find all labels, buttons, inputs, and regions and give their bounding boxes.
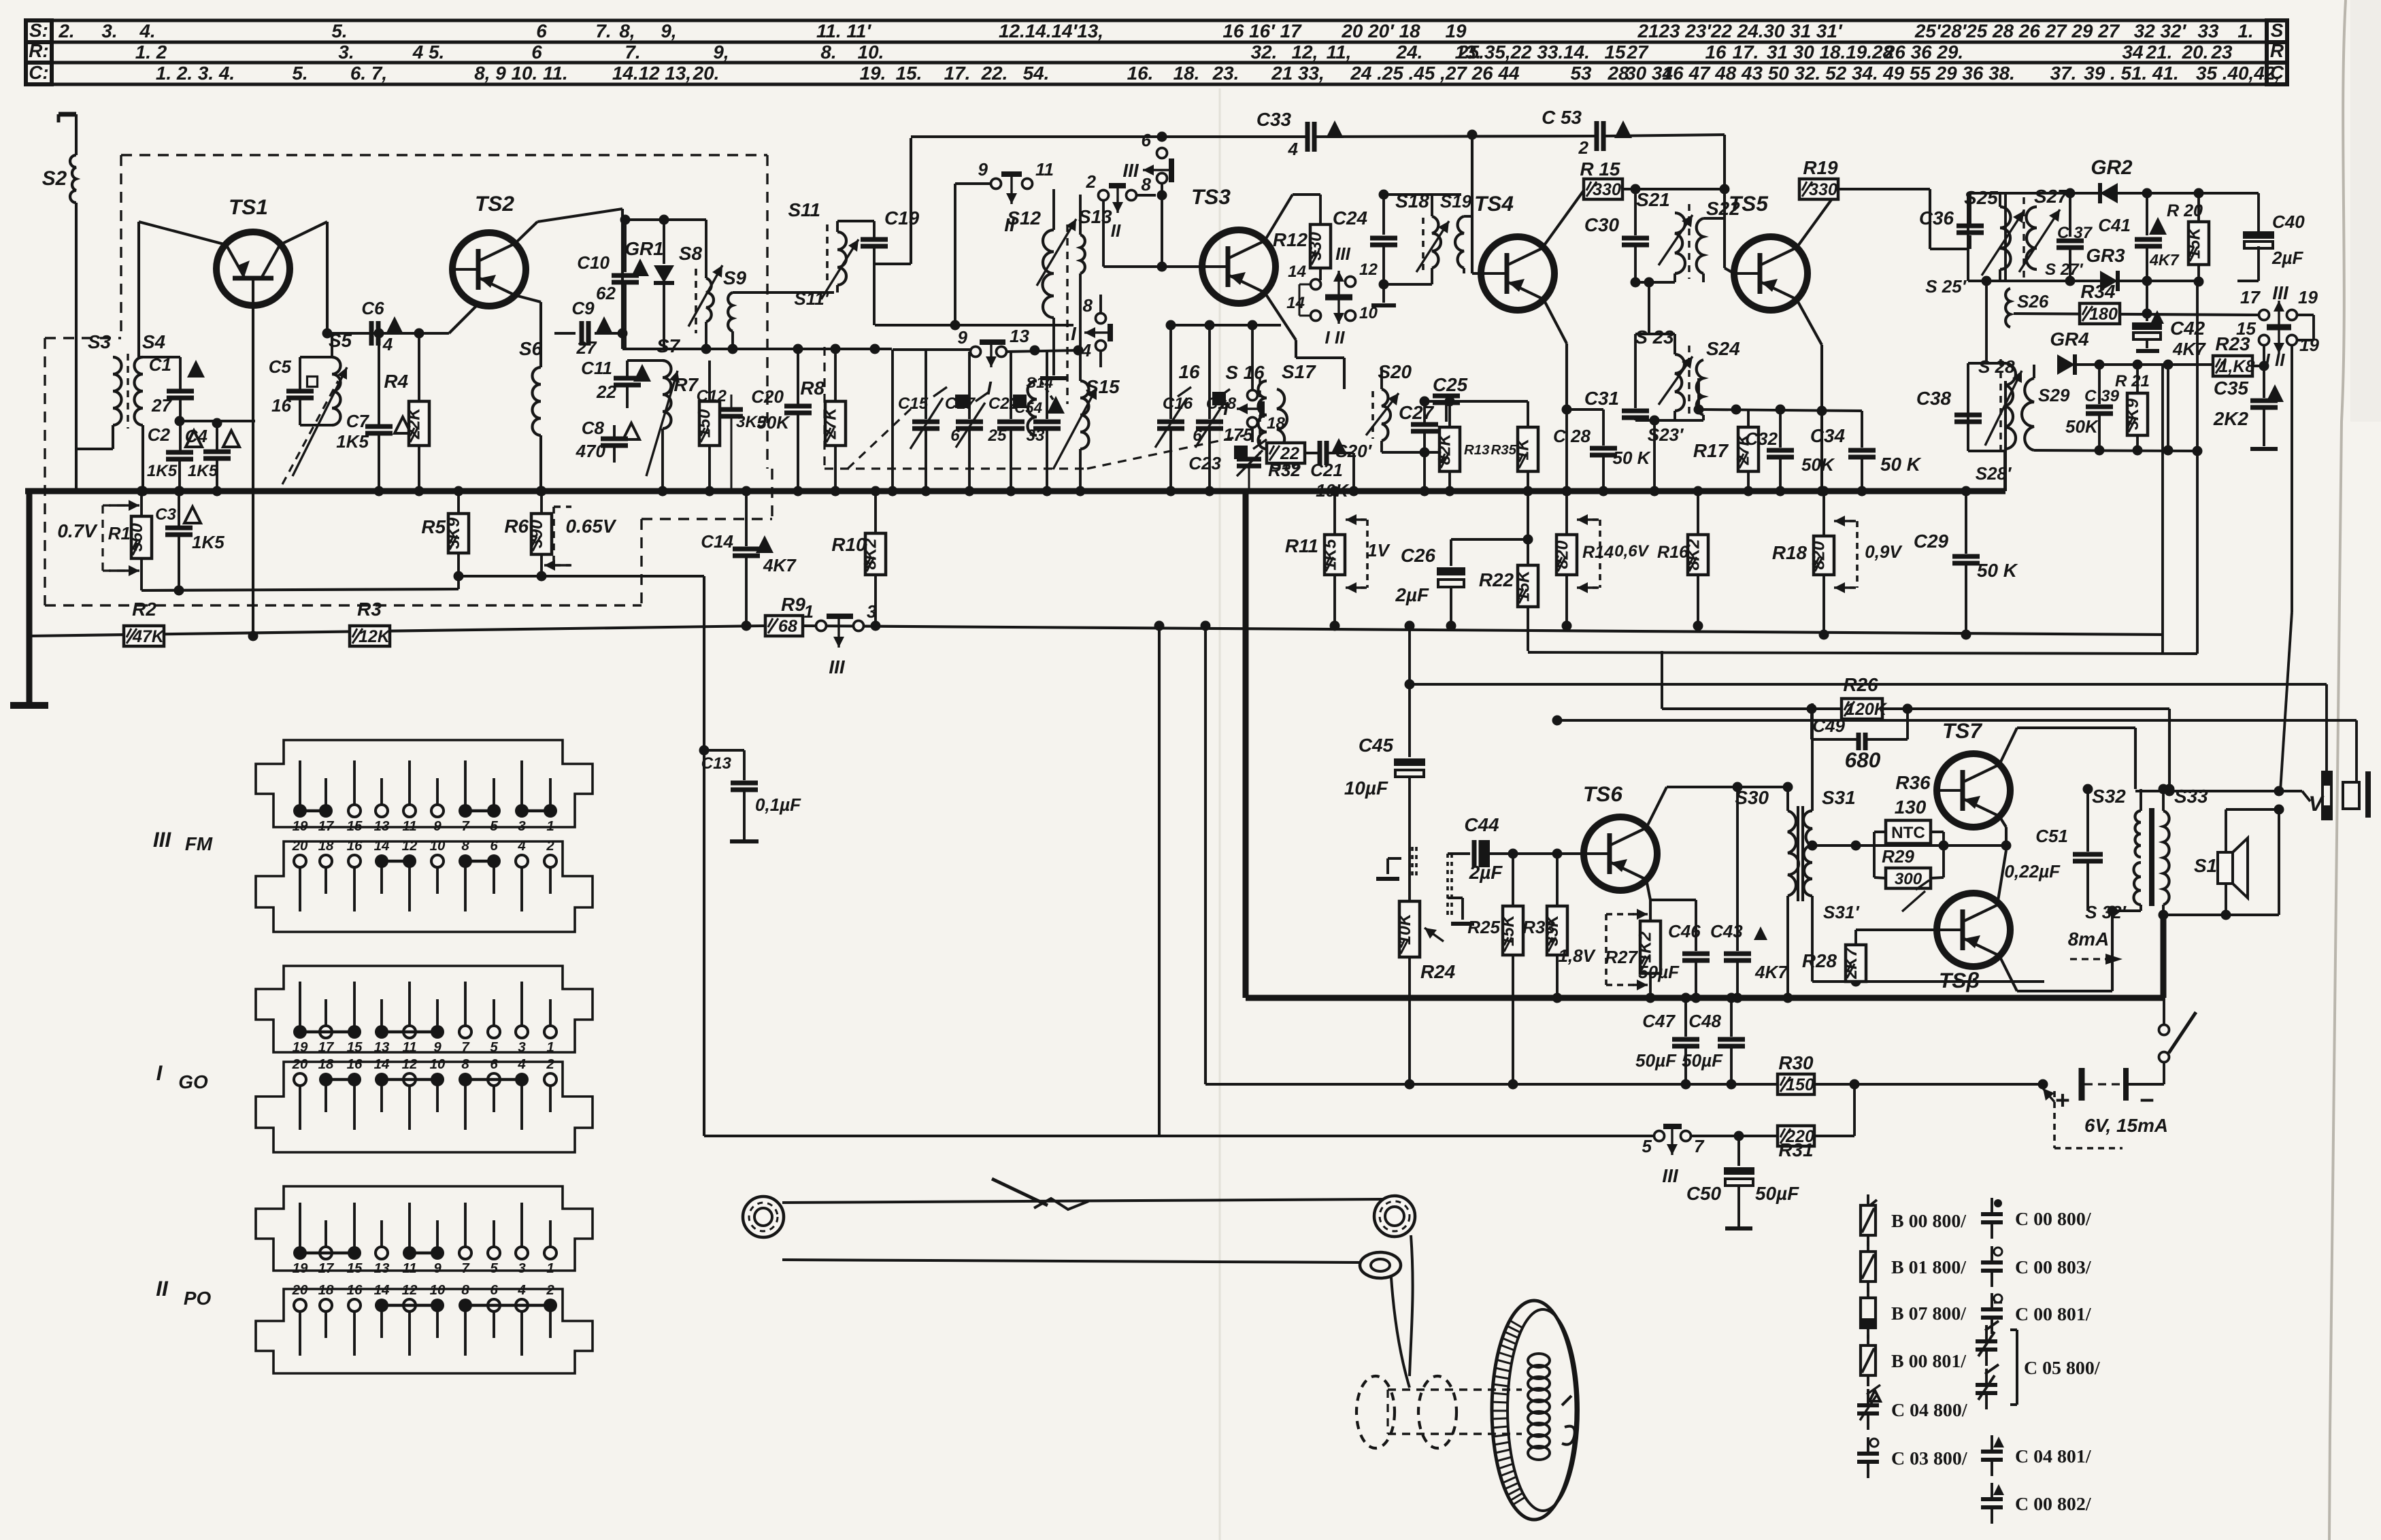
- resistor R18: [1772, 486, 1834, 640]
- svg-text:S 23: S 23: [1635, 327, 1674, 348]
- svg-text:S32: S32: [2092, 786, 2126, 807]
- svg-text:C 00 802/: C 00 802/: [2015, 1494, 2092, 1515]
- svg-text:S29: S29: [2038, 385, 2070, 405]
- capacitor C42: [2132, 310, 2206, 359]
- switch contact 6-8 III vert: [1122, 130, 1171, 272]
- pot wiper dashes: [1376, 847, 1474, 924]
- capacitor C4: [185, 423, 239, 497]
- svg-text:50µF: 50µF: [1755, 1183, 1799, 1204]
- svg-text:4 5.: 4 5.: [412, 41, 445, 63]
- legend B 00 800: [1861, 1194, 1967, 1246]
- svg-text:S 25′: S 25′: [1925, 276, 1967, 297]
- svg-text:C29: C29: [1914, 531, 1949, 552]
- svg-text:4K7: 4K7: [2149, 251, 2180, 269]
- svg-text:C 28: C 28: [1553, 426, 1591, 446]
- capacitor C21: [1305, 438, 1359, 501]
- svg-text:S21: S21: [1636, 189, 1670, 210]
- svg-text:50µF: 50µF: [1682, 1050, 1723, 1071]
- capacitor C50: [1686, 1136, 1799, 1228]
- diode GR1: [625, 220, 674, 349]
- svg-text:18: 18: [318, 1282, 334, 1298]
- svg-text:R16: R16: [1657, 543, 1689, 562]
- svg-text:C13: C13: [701, 754, 732, 773]
- svg-text:18: 18: [1267, 414, 1285, 433]
- wire A volume: [1405, 680, 2327, 771]
- wire S5 top to C6 rail: [322, 329, 450, 358]
- svg-text:C10: C10: [577, 252, 610, 273]
- TS3 base rail: [1103, 265, 1202, 268]
- wire S22-TS5: [1724, 218, 1725, 268]
- bus right end vertical: [2004, 381, 2007, 491]
- svg-text:68: 68: [778, 617, 797, 636]
- svg-text:1: 1: [546, 1260, 554, 1276]
- svg-text:S9: S9: [723, 267, 747, 288]
- svg-text:50µF: 50µF: [1638, 962, 1680, 982]
- svg-text:15K: 15K: [2185, 227, 2204, 259]
- svg-text:C12: C12: [697, 387, 727, 405]
- svg-text:C 00 800/: C 00 800/: [2015, 1209, 2092, 1230]
- svg-text:R 21: R 21: [2115, 372, 2150, 390]
- wire S3 bottom: [76, 425, 113, 449]
- svg-text:330: 330: [1809, 180, 1837, 199]
- svg-text:17.: 17.: [944, 63, 971, 84]
- spring hook: [1562, 1396, 1575, 1445]
- svg-text:−: −: [2139, 1086, 2154, 1114]
- svg-text:2: 2: [546, 1056, 554, 1072]
- svg-text:16: 16: [347, 1282, 363, 1298]
- svg-text:44: 44: [1497, 63, 1520, 84]
- svg-text:22K: 22K: [405, 407, 424, 440]
- svg-text:R10: R10: [831, 534, 867, 555]
- svg-text:R4: R4: [384, 371, 408, 392]
- svg-text:S25: S25: [1964, 187, 1998, 208]
- svg-text:C49: C49: [1812, 716, 1845, 736]
- svg-text:R29: R29: [1882, 846, 1914, 867]
- capacitor C28: [1553, 409, 1652, 497]
- svg-text:NTC: NTC: [1891, 824, 1925, 842]
- svg-text:50K: 50K: [756, 412, 790, 433]
- supply rail to battery: [1205, 1083, 2043, 1086]
- coil S18 variable: [1395, 190, 1449, 272]
- svg-text:27: 27: [576, 337, 597, 358]
- svg-text:12.14.14′13,: 12.14.14′13,: [999, 20, 1103, 41]
- svg-text:25′28′25 28 26 27 29 27: 25′28′25 28 26 27 29 27: [1914, 20, 2120, 41]
- transformer core S3/S4: [127, 354, 129, 429]
- resistor R6: [504, 486, 552, 582]
- svg-text:C41: C41: [2098, 215, 2131, 235]
- svg-text:16: 16: [1178, 361, 1200, 382]
- trimmer C18: [1193, 325, 1236, 497]
- capacitor C34: [1810, 411, 1922, 497]
- legend C 05 800: [1976, 1321, 2101, 1409]
- resistor R4: [384, 329, 429, 497]
- svg-text:7: 7: [461, 818, 470, 834]
- svg-text:22.: 22.: [981, 63, 1008, 84]
- switch bank PO pins row 2: [292, 1282, 557, 1356]
- svg-text:16.: 16.: [1127, 63, 1154, 84]
- svg-text:20: 20: [292, 1056, 308, 1072]
- svg-text:6: 6: [536, 20, 547, 41]
- TS6 collector wire: [1646, 782, 1793, 828]
- svg-text:14: 14: [374, 1282, 390, 1298]
- frequency/alignment table frame: [26, 20, 2287, 84]
- wire C19 loop to rail: [874, 138, 911, 264]
- svg-text:C8: C8: [582, 418, 605, 438]
- transistor TS8: [1937, 893, 2010, 992]
- svg-text:12: 12: [1359, 261, 1378, 279]
- svg-text:C21: C21: [1310, 460, 1343, 480]
- legend C 04 800: [1857, 1385, 1968, 1430]
- svg-text:11: 11: [1035, 159, 1054, 180]
- wire C6 to TS2 base: [449, 304, 478, 333]
- switch bank GO strip 2: [256, 1062, 593, 1152]
- svg-text:TS3: TS3: [1191, 184, 1231, 209]
- TS6 emitter wire: [1646, 880, 1650, 921]
- svg-text:S26: S26: [2017, 291, 2049, 312]
- capacitor C45: [1344, 621, 1425, 902]
- svg-text:35 .40,42,: 35 .40,42,: [2196, 63, 2280, 84]
- power switch: [2159, 998, 2197, 1084]
- svg-text:C44: C44: [1464, 814, 1499, 835]
- trimmer C15: [898, 350, 947, 497]
- coil S30: [1735, 787, 1799, 1003]
- svg-text:+: +: [2055, 1086, 2070, 1114]
- svg-text:24 .25 .45 ,27 26: 24 .25 .45 ,27 26: [1350, 63, 1493, 84]
- svg-text:0,9V: 0,9V: [1865, 541, 1903, 562]
- svg-text:S31: S31: [1822, 787, 1856, 808]
- svg-text:19.: 19.: [860, 63, 886, 84]
- svg-text:C24: C24: [1333, 207, 1368, 229]
- svg-text:GO: GO: [178, 1071, 208, 1092]
- svg-text:820: 820: [1553, 541, 1572, 569]
- coil S7 variable: [646, 335, 681, 497]
- svg-text:17: 17: [318, 1039, 335, 1055]
- svg-text:R14: R14: [1582, 543, 1614, 562]
- capacitor C33: [1256, 109, 1344, 159]
- svg-text:6: 6: [490, 1282, 498, 1298]
- capacitor C36: [1919, 193, 1984, 249]
- capacitor C27: [1399, 401, 1438, 458]
- wire C25-C27 loop: [1425, 393, 1459, 452]
- svg-text:TSβ: TSβ: [1939, 968, 1980, 992]
- svg-text:1K5: 1K5: [147, 462, 178, 480]
- svg-text:S24: S24: [1706, 338, 1740, 359]
- svg-text:C15: C15: [898, 395, 929, 413]
- TS3 collector wire: [1265, 195, 1320, 241]
- svg-text:8,: 8,: [619, 20, 635, 41]
- svg-text:S17: S17: [1282, 361, 1316, 382]
- svg-text:4: 4: [517, 838, 526, 854]
- svg-text:50 K: 50 K: [1613, 448, 1652, 468]
- switch bank GO strip 1: [256, 966, 593, 1052]
- svg-text:7.: 7.: [625, 41, 640, 63]
- wire lower rail to R31: [1654, 1135, 1691, 1137]
- svg-text:S4: S4: [142, 331, 166, 352]
- svg-text:C45: C45: [1359, 735, 1394, 756]
- legend C 00 802: [1981, 1483, 2092, 1524]
- wire wiper to C44: [1448, 852, 1470, 855]
- coil S26: [1986, 288, 2049, 327]
- svg-text:S23′: S23′: [1648, 424, 1684, 445]
- coil S17: [1277, 358, 1344, 453]
- svg-text:S 27′: S 27′: [2045, 261, 2084, 279]
- transformer S32/S33 top rail: [2135, 786, 2279, 797]
- dial cord upper: [782, 1199, 1388, 1203]
- resistor R8: [800, 349, 846, 497]
- dial pointer: [992, 1179, 1088, 1209]
- phone jack plug: [2321, 771, 2333, 820]
- svg-text:19: 19: [293, 1039, 308, 1055]
- wire S32 ends: [2108, 789, 2142, 916]
- R26 feed wire: [1528, 651, 1817, 714]
- svg-text:S18: S18: [1395, 190, 1429, 212]
- svg-text:5.: 5.: [331, 20, 347, 41]
- TS4 emitter wire: [1544, 299, 1572, 415]
- svg-text:8: 8: [1142, 174, 1152, 195]
- TS3 emitter wire: [1265, 292, 1344, 389]
- svg-text:C43: C43: [1710, 921, 1743, 941]
- svg-text:7: 7: [461, 1260, 470, 1276]
- transistor TS4: [1474, 191, 1554, 310]
- switch contact 2-8 II: [1086, 171, 1137, 241]
- svg-text:13: 13: [374, 818, 390, 834]
- resistor R1: [108, 486, 152, 591]
- TS4 base wire: [1472, 272, 1481, 275]
- svg-text:23: 23: [2210, 41, 2233, 63]
- detector bottom rail: [2034, 446, 2197, 456]
- svg-text:10K: 10K: [1395, 912, 1414, 945]
- resistor R9: [765, 594, 805, 636]
- svg-text:12: 12: [402, 1056, 418, 1072]
- svg-text:S 28: S 28: [1978, 356, 2015, 377]
- svg-text:54.: 54.: [1023, 63, 1050, 84]
- svg-text:6: 6: [490, 838, 498, 854]
- switch bank GO pins row 2: [292, 1056, 556, 1130]
- svg-text:4: 4: [517, 1282, 526, 1298]
- svg-text:4K7: 4K7: [2172, 339, 2206, 359]
- coil S6: [515, 295, 546, 497]
- TS1 base wire: [248, 305, 259, 641]
- resistor R27: [1605, 921, 1661, 1003]
- svg-text:S8: S8: [679, 243, 703, 264]
- resistor R15: [1580, 158, 1622, 199]
- svg-text:4: 4: [382, 334, 393, 354]
- svg-text:33: 33: [2197, 20, 2219, 41]
- capacitor C1: [149, 354, 205, 452]
- wire R19 to S25: [1838, 189, 1968, 249]
- C5/S5 loop: [300, 357, 332, 425]
- coil S3: [88, 331, 122, 425]
- svg-text:6: 6: [490, 1056, 498, 1072]
- svg-text:17.: 17.: [1733, 41, 1759, 63]
- svg-text:7: 7: [461, 1039, 470, 1055]
- svg-text:III: III: [1122, 160, 1139, 181]
- svg-text:25.35,22 33.14.: 25.35,22 33.14.: [1457, 41, 1590, 63]
- resistor R25: [1467, 854, 1523, 1090]
- svg-text:10µF: 10µF: [1344, 777, 1388, 799]
- svg-text:S: S: [2271, 20, 2284, 41]
- voltage 0.65V: [544, 507, 617, 571]
- label I GO: [156, 1060, 208, 1092]
- svg-text:C 39: C 39: [2084, 387, 2120, 405]
- svg-text:15: 15: [347, 1039, 363, 1055]
- svg-text:C31: C31: [1584, 388, 1619, 409]
- svg-text:5: 5: [1642, 1136, 1652, 1156]
- svg-text:390: 390: [527, 520, 546, 548]
- svg-text:3: 3: [518, 1039, 526, 1055]
- svg-text:8, 9 10. 11.: 8, 9 10. 11.: [474, 63, 568, 84]
- svg-text:C36: C36: [1919, 207, 1954, 229]
- resistor R31: [1739, 1079, 1860, 1161]
- svg-text:S11: S11: [788, 199, 820, 220]
- volume feed drop: [703, 576, 705, 1136]
- node rail y513: [622, 344, 892, 354]
- legend B 01 800: [1861, 1241, 1967, 1292]
- coil S19: [1440, 135, 1472, 273]
- wire B feedback: [1552, 716, 2357, 783]
- svg-text:R13: R13: [1464, 442, 1490, 458]
- svg-text:19: 19: [293, 818, 308, 834]
- svg-text:TS6: TS6: [1583, 782, 1622, 806]
- switch bank FM strip 2: [256, 841, 593, 932]
- capacitor C6: [361, 298, 403, 354]
- svg-text:10: 10: [430, 838, 446, 854]
- svg-text:4: 4: [1288, 139, 1299, 159]
- svg-text:7.: 7.: [595, 20, 611, 41]
- capacitor C37: [2057, 188, 2093, 286]
- capacitor C40: [2237, 193, 2305, 281]
- wire R22 out: [1528, 652, 2197, 654]
- dial cord lower: [782, 1260, 1361, 1262]
- svg-text:14: 14: [1286, 294, 1305, 312]
- svg-text:R19: R19: [1803, 157, 1838, 178]
- svg-text:53: 53: [1570, 63, 1592, 84]
- TS8 base wire: [1856, 877, 1937, 930]
- capacitor C26: [1395, 535, 1533, 631]
- svg-text:PO: PO: [184, 1288, 212, 1309]
- resistor R21: [2115, 365, 2150, 450]
- svg-text:17: 17: [2240, 287, 2261, 307]
- switch bank PO pins row 1: [293, 1203, 556, 1276]
- dial drum wheel: [1492, 1301, 1578, 1520]
- voltage 1V: [1346, 514, 1391, 593]
- svg-text:S 32′: S 32′: [2085, 902, 2127, 922]
- legend C 00 801: [1981, 1293, 2092, 1334]
- resistor R30: [1778, 1052, 1814, 1094]
- wire loop1 to loop2: [1635, 282, 1675, 334]
- svg-text:S:: S:: [29, 20, 48, 41]
- svg-text:GR4: GR4: [2050, 329, 2089, 350]
- svg-text:1: 1: [546, 1039, 554, 1055]
- svg-text:330: 330: [1593, 180, 1621, 199]
- svg-text:1,8V: 1,8V: [1558, 945, 1596, 966]
- svg-text:50 K: 50 K: [1977, 560, 2018, 581]
- wire top rail right corner: [2086, 192, 2237, 195]
- svg-text:49 55 29 36 38.: 49 55 29 36 38.: [1882, 63, 2015, 84]
- svg-text:21.: 21.: [2146, 41, 2173, 63]
- svg-text:9: 9: [978, 159, 988, 180]
- chassis bus (thick horizontal): [25, 488, 2005, 495]
- svg-text:C 05 800/: C 05 800/: [2024, 1358, 2101, 1379]
- diode GR3: [2086, 245, 2152, 291]
- svg-text:16 16′ 17: 16 16′ 17: [1222, 20, 1302, 41]
- voltage 0.6V: [1577, 514, 1650, 593]
- svg-text:R2: R2: [132, 599, 156, 620]
- svg-text:11,: 11,: [1327, 41, 1352, 63]
- svg-text:16: 16: [347, 838, 363, 854]
- transformer core S12/S13: [1066, 224, 1068, 404]
- svg-text:1K2: 1K2: [1636, 931, 1655, 962]
- svg-text:FM: FM: [185, 833, 213, 854]
- svg-text:20 20′ 18: 20 20′ 18: [1341, 20, 1420, 41]
- diode GR2: [2091, 156, 2152, 203]
- transistor TS2: [452, 191, 526, 306]
- svg-text:4: 4: [1081, 340, 1092, 361]
- svg-text:6. 7,: 6. 7,: [350, 63, 387, 84]
- wire drops right: [2163, 282, 2203, 654]
- svg-text:23.: 23.: [1212, 63, 1239, 84]
- TS5 collector wire: [1797, 190, 1838, 248]
- R17 rail: [1694, 378, 1863, 415]
- coil S15 variable: [1053, 376, 1120, 497]
- svg-text:R22: R22: [1479, 569, 1514, 590]
- svg-text:39 . 51. 41.: 39 . 51. 41.: [2084, 63, 2179, 84]
- svg-text:I: I: [1071, 323, 1077, 344]
- coil S13: [1078, 195, 1112, 381]
- svg-text:25: 25: [988, 426, 1007, 445]
- svg-text:26 36 29.: 26 36 29.: [1884, 41, 1963, 63]
- svg-text:C33: C33: [1256, 109, 1292, 130]
- switch contact 5-7 III: [1642, 1126, 1744, 1186]
- svg-text:2: 2: [546, 838, 554, 854]
- svg-text:S13: S13: [1078, 206, 1112, 227]
- svg-text:S12: S12: [1007, 207, 1041, 229]
- svg-text:120K: 120K: [1846, 700, 1888, 719]
- svg-text:C51: C51: [2035, 826, 2068, 846]
- coil S8 variable: [679, 220, 722, 349]
- svg-text:8mA: 8mA: [2068, 928, 2109, 950]
- transistor TS6: [1583, 782, 1657, 890]
- axle dashes: [1388, 1390, 1522, 1434]
- svg-text:13: 13: [374, 1260, 390, 1276]
- svg-text:TS7: TS7: [1942, 718, 1982, 743]
- svg-text:R24: R24: [1420, 961, 1456, 982]
- svg-text:9: 9: [433, 818, 442, 834]
- label S31p: [1823, 902, 1860, 922]
- dashed FM box left: [120, 155, 122, 334]
- coil S9: [723, 267, 834, 349]
- resistor R16: [1657, 486, 1708, 631]
- switch bank GO pins row 1: [293, 982, 556, 1055]
- svg-text:32.: 32.: [1251, 41, 1278, 63]
- capacitor C53: [1542, 107, 1632, 158]
- wire S31 tap: [1812, 841, 1861, 851]
- svg-text:C 04 801/: C 04 801/: [2015, 1446, 2092, 1467]
- trimmer C22: [988, 352, 1027, 497]
- capacitor C11: [581, 349, 664, 408]
- wire switch to S17: [1350, 321, 1351, 358]
- resistor R23: [2213, 333, 2264, 376]
- label 16: [1178, 361, 1200, 382]
- switch contact 9-13 I: [958, 326, 1084, 399]
- vertical x3156 link: [2146, 281, 2148, 314]
- R26 to S33 wire: [1908, 709, 2175, 794]
- switch contact 17-19 III: [2236, 282, 2319, 370]
- rail TS2 emitter top: [620, 215, 707, 225]
- svg-text:1. 2. 3. 4.: 1. 2. 3. 4.: [156, 63, 235, 84]
- wire 19 down to jack: [2280, 346, 2292, 791]
- svg-text:TS1: TS1: [229, 195, 268, 219]
